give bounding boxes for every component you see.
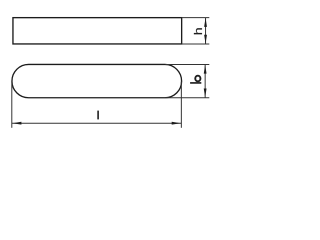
- arrow l left: [12, 122, 21, 125]
- extension line h bottom: [182, 43, 210, 45]
- arrow h top: [204, 18, 207, 27]
- arrow b bottom: [204, 89, 207, 98]
- extension line l right: [180, 82, 182, 128]
- extension line b bottom: [166, 97, 210, 99]
- dimension line l: [12, 122, 182, 124]
- label l: [97, 111, 99, 120]
- extension line l left: [11, 82, 13, 128]
- label h: [194, 28, 202, 34]
- arrow b top: [204, 65, 207, 74]
- arrow l right: [172, 122, 181, 125]
- side view rectangle of key: [13, 18, 182, 44]
- dimension line h: [205, 18, 207, 44]
- extension line h top: [182, 17, 210, 19]
- extension line b top: [166, 63, 210, 65]
- label b: [190, 76, 201, 84]
- dimension line b: [204, 64, 206, 97]
- arrow h bottom: [204, 35, 207, 44]
- plan view stadium outline of key: [12, 64, 182, 97]
